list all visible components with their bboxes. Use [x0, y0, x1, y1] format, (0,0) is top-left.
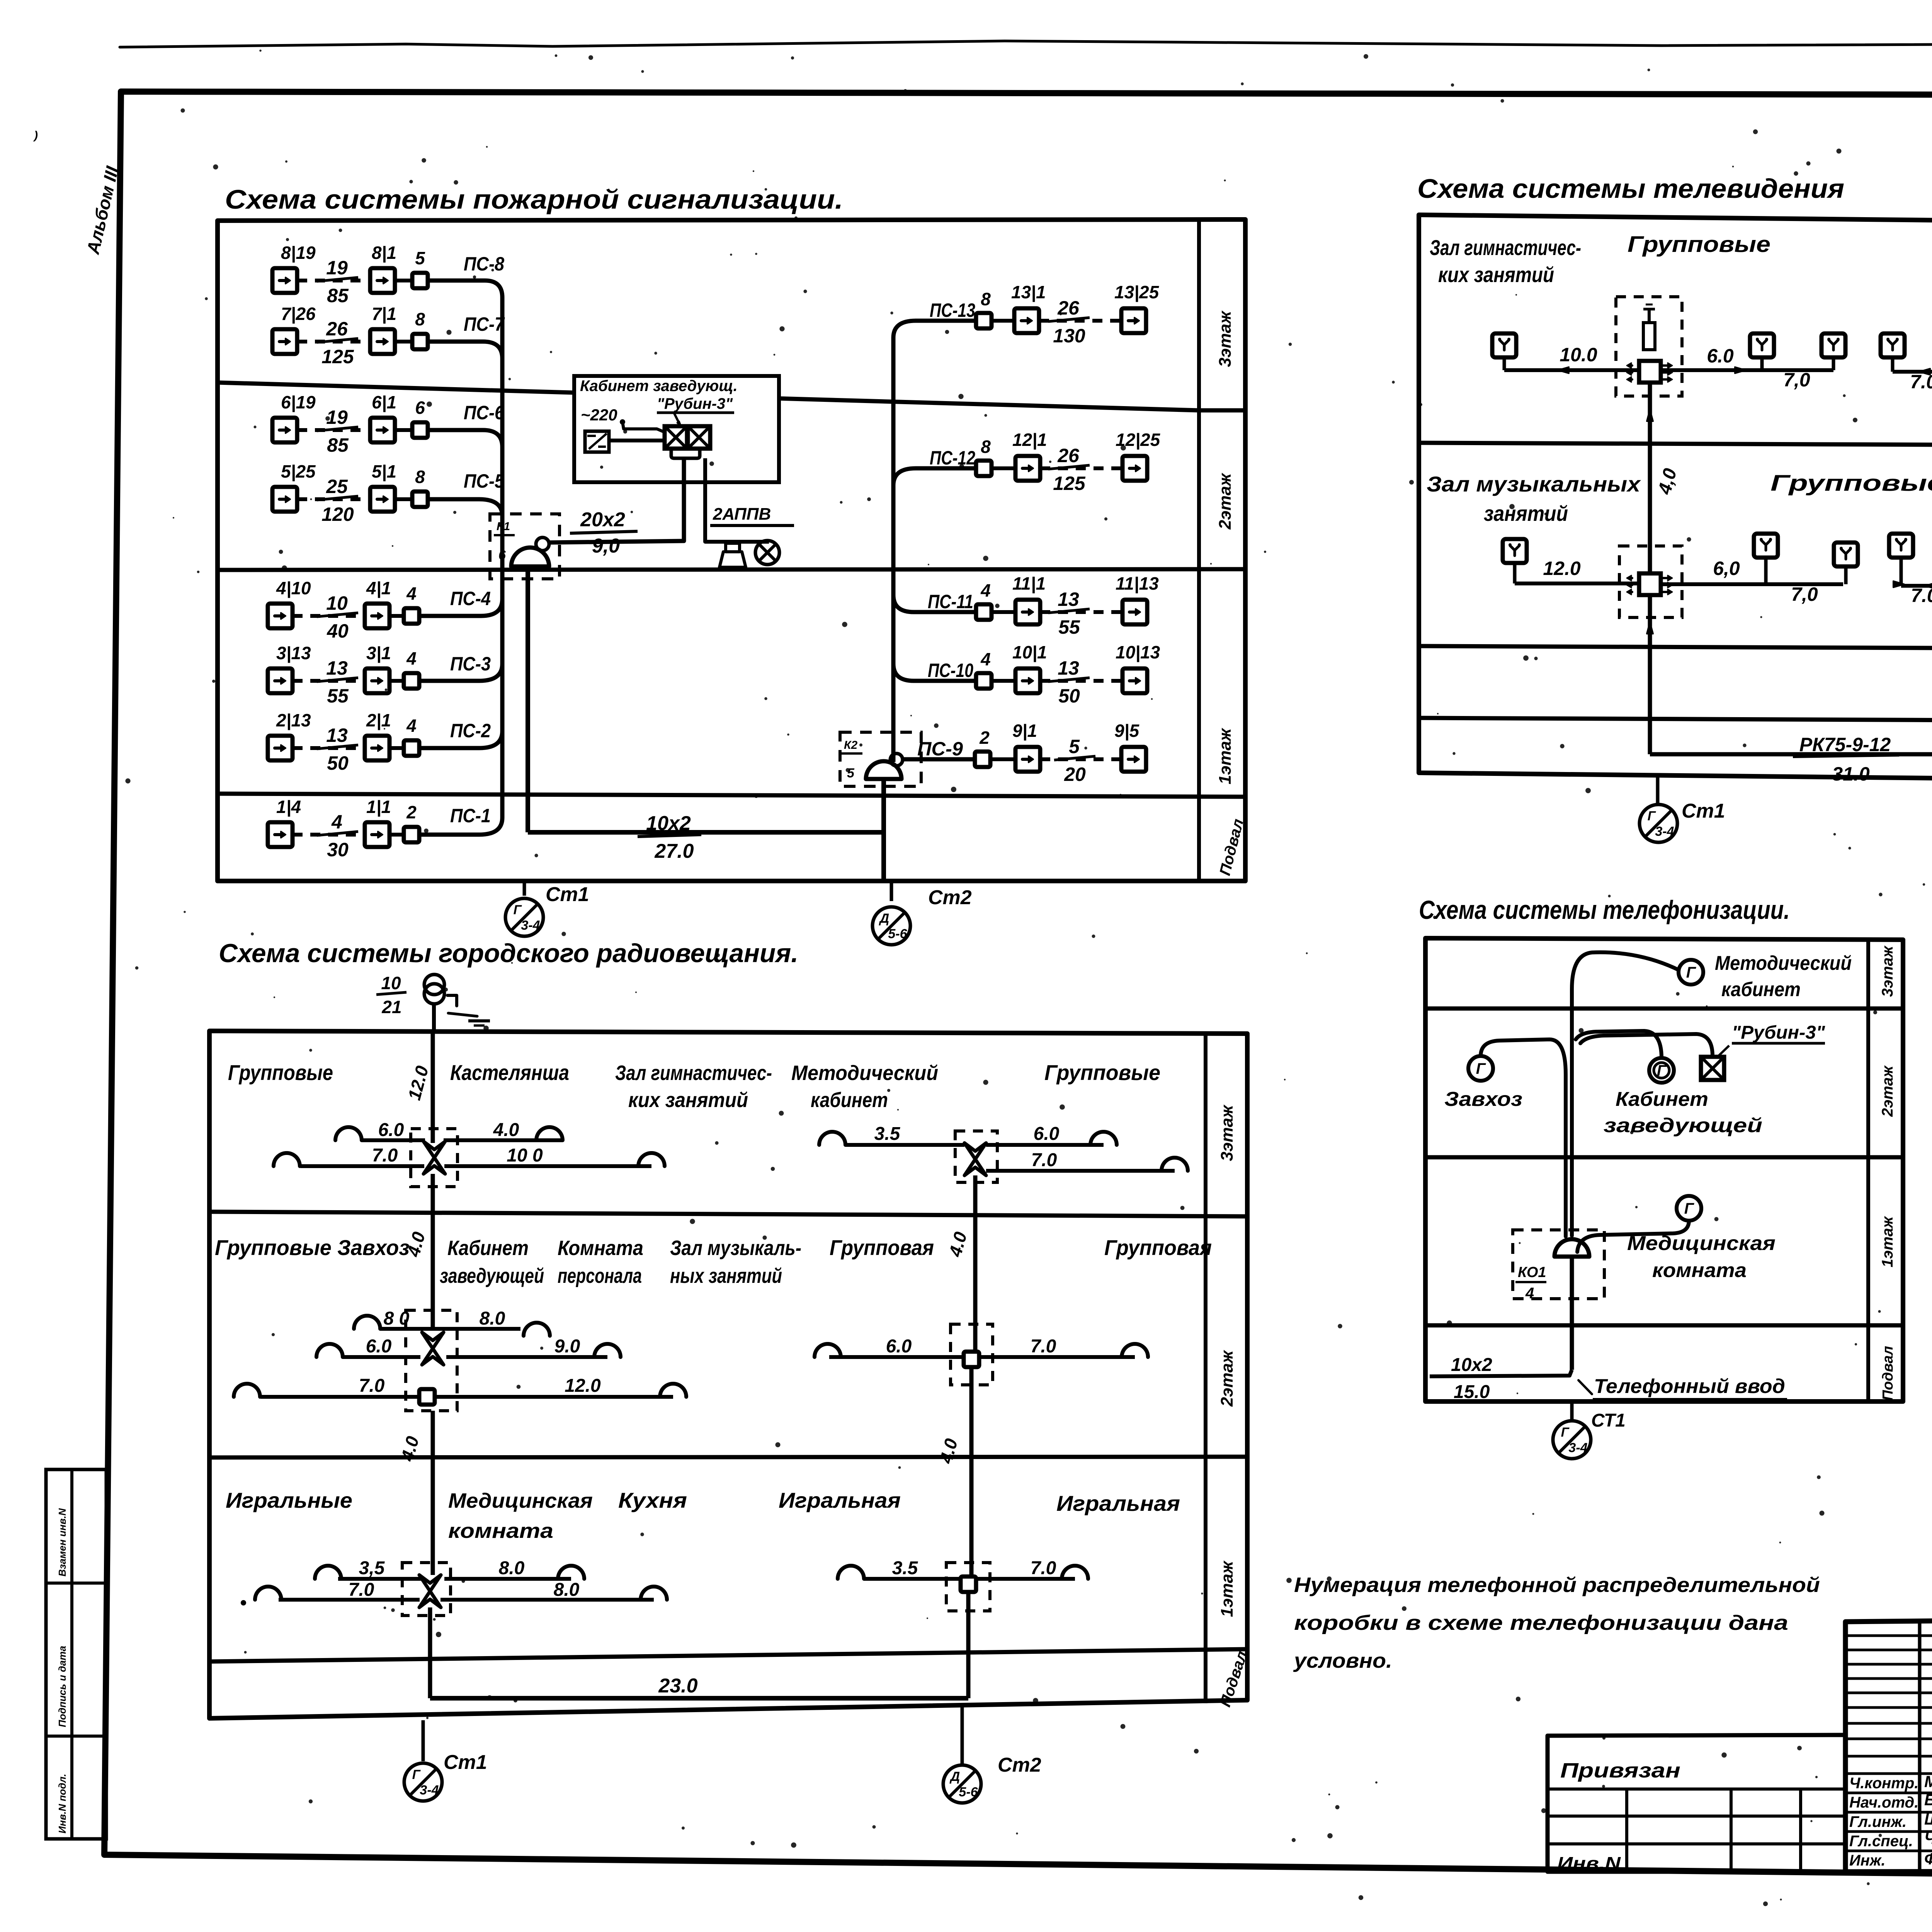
detector ПС-9 (9|1): [1015, 747, 1040, 772]
fire trunk K2 down to St2: [881, 779, 886, 881]
svg-text:ПС-8: ПС-8: [464, 253, 504, 275]
svg-text:Ст1: Ст1: [444, 1751, 487, 1774]
svg-text:комната: комната: [448, 1519, 553, 1543]
wire ПС-13 from riser: [916, 319, 976, 323]
dashed run with count 25/120: [297, 497, 370, 501]
svg-text:4|10: 4|10: [276, 578, 311, 598]
wire 3fl right group: [1893, 370, 1932, 374]
wire ПС-8 to riser: [428, 279, 485, 283]
svg-text:6|1: 6|1: [372, 392, 396, 412]
detector ПС-13 (13|1): [1014, 308, 1039, 333]
wire to box: [389, 746, 404, 750]
svg-text:Групповая: Групповая: [830, 1235, 934, 1260]
wire ПС-4 to riser: [419, 614, 481, 618]
radio 2fl mid right line: [446, 1355, 607, 1359]
svg-text:85: 85: [327, 434, 349, 456]
fire box outline: [218, 219, 1245, 881]
svg-text:Методический: Методический: [1715, 952, 1852, 975]
pull box: [404, 673, 419, 689]
tv outlet A4: [1881, 333, 1905, 357]
svg-text:9.0: 9.0: [554, 1336, 580, 1357]
svg-text:Ст1: Ст1: [1682, 800, 1725, 822]
svg-text:Белов: Белов: [1924, 1791, 1932, 1809]
wire 20x2 from bell to Rubin: [549, 483, 684, 543]
wire to Кабинет заведующей phone: [1576, 1031, 1662, 1058]
wire 220 to signal unit: [622, 422, 664, 432]
svg-text:40: 40: [327, 620, 349, 642]
svg-text:26: 26: [1057, 297, 1080, 319]
phone Медицинская комната: [1677, 1196, 1701, 1221]
St2 riser tick: [890, 881, 893, 901]
riser symbol Ст1 (radio): [404, 1763, 442, 1801]
svg-text:Кастелянша: Кастелянша: [450, 1060, 569, 1085]
fire left riser wire K1: [500, 298, 505, 818]
radio 3fl left lower line: [301, 1164, 424, 1168]
svg-text:10: 10: [381, 973, 401, 993]
dashed run: [1040, 757, 1121, 761]
radio St1 riser tick: [422, 1720, 425, 1761]
detector last ПС-5 (5|1): [370, 487, 395, 512]
radio 3fl right lower line: [444, 1164, 651, 1168]
dashed run with count 10/40: [293, 614, 365, 618]
privyazan box: [1548, 1735, 1845, 1872]
svg-text:9|5: 9|5: [1114, 721, 1139, 741]
detector last ПС-1 (1|1): [365, 822, 389, 847]
svg-text:3.5: 3.5: [892, 1558, 918, 1578]
title block outer frame: [1845, 1614, 1932, 1872]
radio 1fl right line2: [976, 1577, 1075, 1581]
svg-text:Взамен инв.N: Взамен инв.N: [56, 1508, 68, 1577]
speaker r10: [316, 1344, 343, 1357]
svg-text:Г: Г: [1476, 1060, 1486, 1077]
bell K2: [866, 761, 901, 779]
wire box to detector: [992, 319, 1014, 323]
speaker r14: [815, 1344, 841, 1357]
svg-text:~220: ~220: [581, 406, 617, 424]
dashed run with count 13/50: [293, 746, 365, 750]
St1 riser tick: [523, 881, 526, 896]
radio trunk 1 between 3 and 2: [431, 1174, 435, 1329]
svg-text:6.0: 6.0: [886, 1336, 912, 1357]
pull box: [412, 422, 428, 438]
svg-text:85: 85: [327, 285, 349, 306]
bell K1: [511, 548, 549, 566]
svg-text:30: 30: [327, 839, 349, 861]
svg-text:7.0: 7.0: [1911, 585, 1932, 606]
speaker r2: [274, 1153, 300, 1166]
detector first ПС-3 (3|13): [268, 668, 293, 693]
svg-text:ПС-12: ПС-12: [930, 447, 975, 469]
detector last ПС-4 (4|1): [365, 604, 389, 628]
tele floor line 3-2: [1425, 1007, 1903, 1011]
svg-text:6.0: 6.0: [366, 1336, 392, 1357]
svg-text:Инж.: Инж.: [1849, 1852, 1886, 1869]
radio stand stem: [432, 1004, 436, 1031]
dashed run with count 26/125: [297, 340, 370, 344]
svg-text:ных занятий: ных занятий: [670, 1264, 782, 1287]
speaker r7: [1162, 1158, 1188, 1171]
svg-text:2|13: 2|13: [276, 710, 311, 730]
wire bend ПС-5 into riser: [479, 499, 502, 516]
tv outlet B4: [1889, 534, 1913, 558]
wire box to detector: [992, 679, 1015, 683]
wire bend ПС-10 from riser: [893, 664, 914, 681]
bell KO1: [1554, 1239, 1589, 1257]
svg-text:26: 26: [326, 318, 348, 340]
detector last ПС-9 (9|5): [1121, 747, 1146, 772]
svg-text:1этаж: 1этаж: [1218, 1560, 1236, 1617]
svg-text:6.0: 6.0: [1707, 345, 1734, 367]
detector ПС-11 (11|1): [1015, 600, 1040, 624]
tv outlet A1: [1492, 333, 1516, 357]
svg-text:Г: Г: [412, 1767, 421, 1782]
dashed run: [1039, 319, 1121, 323]
wire 10x2 horizontal in basement: [528, 830, 884, 835]
wire to Рубин-3 (tele): [1580, 1034, 1713, 1056]
svg-text:4|1: 4|1: [366, 578, 391, 598]
radio 1fl right line1: [864, 1577, 961, 1581]
tv outlet B2: [1754, 534, 1778, 558]
radio trunk 1 basement: [428, 1607, 432, 1698]
wire unit to horn and lamp: [705, 458, 769, 542]
svg-text:Кабинет: Кабинет: [447, 1236, 529, 1260]
svg-text:Телефонный ввод: Телефонный ввод: [1594, 1375, 1785, 1398]
svg-text:6: 6: [415, 398, 425, 418]
svg-text:ПС-7: ПС-7: [464, 313, 505, 335]
arrow from Рубин-3 label to unit: [674, 413, 680, 425]
svg-text:13|25: 13|25: [1114, 282, 1160, 302]
svg-text:4: 4: [331, 811, 342, 833]
svg-text:Нач.отд.: Нач.отд.: [1849, 1794, 1918, 1811]
tele floor line 1-basement: [1425, 1323, 1903, 1328]
outlet A3 stem: [1832, 358, 1835, 370]
svg-text:Групповые: Групповые: [228, 1060, 333, 1085]
detector first ПС-1 (1|4): [268, 822, 293, 847]
pull box: [976, 673, 992, 689]
radio 1fl upper line: [338, 1577, 421, 1581]
svg-text:Игральная: Игральная: [1056, 1491, 1180, 1515]
svg-text:10х2: 10х2: [646, 812, 691, 835]
svg-text:125: 125: [1053, 473, 1086, 494]
riser symbol Ст2 (radio): [943, 1765, 981, 1803]
radio 3fl right upper line: [444, 1138, 563, 1142]
svg-text:4: 4: [406, 583, 417, 604]
wire bend ПС-7 into riser: [483, 342, 502, 359]
svg-text:ких занятий: ких занятий: [628, 1088, 748, 1112]
radio basement wire 23.0: [430, 1696, 968, 1701]
svg-text:3-4: 3-4: [1568, 1440, 1587, 1455]
tv outlet A2: [1750, 333, 1774, 357]
wire bend ПС-13 from riser: [893, 321, 916, 338]
svg-text:3-4: 3-4: [420, 1783, 439, 1798]
radio trunk 2 basement: [966, 1592, 971, 1698]
tv outlet B1: [1503, 539, 1527, 563]
svg-text:5: 5: [415, 248, 425, 268]
svg-text:19: 19: [326, 257, 348, 279]
svg-text:4.0: 4.0: [493, 1120, 519, 1140]
svg-text:13: 13: [326, 657, 348, 679]
tv splitter left 3fl: [1639, 361, 1661, 383]
pull box 2fl right: [964, 1352, 979, 1367]
svg-text:2этаж: 2этаж: [1218, 1350, 1236, 1407]
tv outlet B3: [1834, 543, 1858, 566]
svg-text:4: 4: [980, 580, 991, 600]
svg-text:4: 4: [980, 649, 991, 669]
detector last ПС-10 (10|13): [1122, 668, 1147, 693]
svg-text:50: 50: [327, 752, 349, 774]
wire 2fl left with 12.0: [1515, 582, 1639, 585]
svg-text:20х2: 20х2: [580, 509, 625, 531]
svg-text:заведующей: заведующей: [1604, 1114, 1762, 1137]
radio trunk 2 right upper: [973, 1175, 978, 1350]
wire to box: [395, 279, 412, 282]
signal unit Рубин-3 (two X boxes): [665, 426, 687, 449]
tv head dashed enclosure left 3fl: [1616, 297, 1682, 396]
svg-text:5|1: 5|1: [372, 461, 396, 481]
room box Кабинет заведующ: [574, 376, 779, 482]
svg-text:1этаж: 1этаж: [1879, 1216, 1896, 1267]
tele St1 tick: [1570, 1401, 1574, 1420]
svg-text:Групповые: Групповые: [1044, 1060, 1160, 1085]
radio 3fl right group line2: [986, 1143, 1104, 1147]
wire to box: [389, 614, 404, 618]
svg-text:Схема системы городского ра: Схема системы городского радиовещания.: [219, 939, 798, 968]
svg-text:3этаж: 3этаж: [1216, 310, 1235, 367]
radio floor line 1-basement: [209, 1649, 1247, 1662]
svg-text:Подпись и дата: Подпись и дата: [56, 1646, 68, 1727]
radio 2fl bottom right line: [435, 1395, 673, 1399]
svg-text:3|13: 3|13: [276, 643, 311, 663]
svg-text:К1: К1: [497, 520, 510, 533]
svg-text:ПС-13: ПС-13: [930, 299, 975, 321]
wire box to detector: [990, 757, 1015, 761]
pull box: [404, 608, 419, 624]
svg-text:120: 120: [321, 503, 354, 525]
lamp with cross: [755, 541, 779, 565]
svg-text:Зал музыкаль-: Зал музыкаль-: [670, 1236, 801, 1260]
svg-text:условно.: условно.: [1293, 1649, 1392, 1672]
svg-text:Фомина: Фомина: [1924, 1850, 1932, 1868]
svg-text:6,0: 6,0: [1713, 558, 1740, 579]
svg-text:4: 4: [406, 648, 417, 668]
pull box: [404, 740, 419, 756]
dashed run: [1040, 466, 1122, 470]
riser symbol Ст1 (tele): [1553, 1421, 1591, 1459]
svg-text:13: 13: [1058, 588, 1079, 610]
svg-text:Подвал: Подвал: [1880, 1346, 1896, 1401]
svg-text:Кухня: Кухня: [618, 1488, 687, 1512]
svg-text:Нумерация телефонной распредел: Нумерация телефонной распределительной: [1294, 1573, 1820, 1597]
wire ПС-1 to riser: [419, 833, 479, 837]
pull box: [975, 752, 990, 767]
wire box to detector: [992, 610, 1015, 614]
tv splitter left 2fl: [1639, 573, 1661, 595]
svg-text:занятий: занятий: [1484, 501, 1568, 526]
privyazan grid v-lines: [1625, 1789, 1628, 1872]
radio 2fl bottom line: [261, 1395, 418, 1399]
radio floor line 2-1: [209, 1457, 1247, 1458]
svg-text:27.0: 27.0: [654, 840, 694, 862]
svg-text:13: 13: [1058, 657, 1079, 679]
svg-text:50: 50: [1058, 685, 1080, 707]
wire ПС-7 to riser: [428, 340, 483, 344]
speaker r19: [641, 1587, 667, 1600]
svg-text:Ст2: Ст2: [998, 1754, 1041, 1776]
outlet A2 stem: [1760, 358, 1764, 370]
wire to Завхоз phone: [1481, 1039, 1566, 1236]
speaker r13: [660, 1384, 686, 1397]
svg-text:кабинет: кабинет: [811, 1088, 888, 1112]
ufk 3fl left: [423, 1141, 445, 1158]
detector first ПС-4 (4|10): [268, 604, 293, 628]
pull box: [976, 461, 992, 476]
svg-text:12.0: 12.0: [565, 1376, 601, 1396]
svg-text:4: 4: [406, 716, 417, 736]
svg-text:Г: Г: [514, 903, 522, 917]
wire to Медицинская phone: [1577, 1221, 1689, 1252]
radio 1fl lower line: [279, 1598, 420, 1602]
svg-text:7,0: 7,0: [1783, 369, 1810, 391]
svg-text:Инв.N: Инв.N: [1557, 1853, 1621, 1873]
svg-text:1этаж: 1этаж: [1216, 728, 1235, 784]
radio 1fl lower right line: [440, 1598, 654, 1602]
svg-text:Ст2: Ст2: [928, 886, 972, 909]
tv trunk left lower: [1648, 595, 1652, 754]
detector first ПС-7 (7|26): [272, 329, 297, 354]
horn Ревун: [726, 543, 740, 552]
detector first ПС-6 (6|19): [272, 418, 297, 442]
title block left columns: [1918, 1622, 1922, 1871]
svg-text:8: 8: [415, 309, 425, 329]
phone Методический кабинет: [1679, 960, 1703, 985]
wire box to detector: [992, 466, 1015, 470]
svg-text:Привязан: Привязан: [1560, 1759, 1680, 1782]
svg-text:Схема системы телевидения: Схема системы телевидения: [1417, 173, 1844, 204]
junction box K2 dashed enclosure: [840, 732, 921, 786]
svg-text:3,5: 3,5: [359, 1558, 385, 1578]
radio trunk 1 upper: [431, 1031, 435, 1143]
svg-text:ПС-3: ПС-3: [450, 653, 491, 675]
svg-text:55: 55: [1058, 616, 1080, 638]
wire 2fl right group: [1901, 584, 1932, 588]
junction box K1 dashed enclosure: [490, 514, 560, 579]
tv floor line 1-basement: [1419, 718, 1932, 722]
wire ПС-2 to riser: [419, 746, 479, 750]
svg-text:Зал музыкальных: Зал музыкальных: [1427, 472, 1641, 496]
svg-text:23.0: 23.0: [658, 1675, 697, 1697]
svg-text:1|1: 1|1: [366, 797, 391, 817]
svg-text:Чупарева: Чупарева: [1924, 1829, 1932, 1847]
svg-text:5-6: 5-6: [888, 927, 907, 941]
radio St2 riser tick: [961, 1703, 964, 1764]
svg-text:кабинет: кабинет: [1721, 978, 1801, 1001]
svg-text:15.0: 15.0: [1454, 1382, 1490, 1402]
wire power to signal unit: [609, 439, 664, 442]
dashed run with count 13/55: [293, 679, 365, 683]
detector last ПС-13 (13|25): [1121, 308, 1146, 333]
wire to box: [395, 428, 412, 432]
svg-text:комната: комната: [1652, 1259, 1747, 1282]
svg-text:персонала: персонала: [558, 1264, 642, 1287]
svg-text:Д: Д: [879, 911, 889, 926]
radio 3fl right group line1: [845, 1143, 964, 1147]
tv trunk left 4.0: [1648, 383, 1652, 572]
svg-text:Г: Г: [1684, 1200, 1695, 1217]
svg-text:3|1: 3|1: [366, 643, 391, 663]
svg-text:55: 55: [327, 685, 349, 707]
svg-text:Зал гимнастичес-: Зал гимнастичес-: [615, 1061, 772, 1085]
dashed enclosure 2fl left: [406, 1310, 457, 1411]
dashed enclosure left 2fl: [1619, 546, 1682, 617]
wire bend ПС-1 into riser: [479, 818, 502, 835]
svg-text:10х2: 10х2: [1451, 1355, 1492, 1375]
svg-text:8|1: 8|1: [372, 243, 396, 263]
dashed run: [1040, 679, 1122, 683]
riser symbol Ст1 (tv): [1639, 804, 1677, 842]
svg-text:2: 2: [406, 802, 417, 822]
fire floor line 2-1: [218, 569, 1245, 570]
svg-text:8.0: 8.0: [554, 1580, 580, 1600]
svg-text:ПС-4: ПС-4: [450, 588, 491, 609]
svg-text:8: 8: [415, 467, 425, 487]
bell K2 knob: [890, 753, 903, 766]
svg-text:25: 25: [326, 476, 348, 497]
speaker r18: [255, 1587, 281, 1600]
svg-text:13|1: 13|1: [1011, 282, 1046, 302]
pull box: [404, 827, 419, 842]
svg-text:Г: Г: [1686, 964, 1697, 981]
wire bend ПС-12 from riser: [893, 468, 916, 485]
svg-text:10 0: 10 0: [507, 1145, 543, 1166]
svg-text:Ч.контр.: Ч.контр.: [1849, 1775, 1918, 1792]
svg-text:Г: Г: [1657, 1062, 1667, 1079]
svg-text:ПС-1: ПС-1: [450, 805, 491, 827]
wire unit to 20x2 bend: [682, 458, 686, 540]
wire ПС-6 to riser: [428, 428, 483, 432]
fire box floors label column line: [1197, 219, 1201, 881]
svg-text:7.0: 7.0: [1031, 1150, 1057, 1170]
load resistor above splitter: [1643, 323, 1655, 350]
tv floor line 3-2: [1419, 443, 1932, 446]
radio floor line 3-2: [209, 1212, 1247, 1216]
svg-text:СТ1: СТ1: [1591, 1410, 1626, 1431]
svg-text:"Рубин-3": "Рубин-3": [657, 395, 733, 412]
svg-text:7,0: 7,0: [1791, 583, 1818, 605]
svg-text:8|19: 8|19: [281, 243, 316, 263]
svg-text:К2: К2: [844, 739, 857, 752]
wire bend ПС-6 into riser: [483, 430, 502, 447]
svg-text:Групповые Завхоз: Групповые Завхоз: [215, 1235, 410, 1260]
wire ПС-11 from riser: [914, 610, 976, 614]
fire floor line 3-2: [218, 383, 1199, 410]
speaker r3: [536, 1127, 563, 1140]
svg-text:12|1: 12|1: [1012, 430, 1047, 450]
svg-text:Завхоз: Завхоз: [1444, 1088, 1522, 1111]
wire 2fl mid: [1661, 582, 1843, 586]
svg-text:ПС-6: ПС-6: [464, 402, 505, 423]
svg-text:12.0: 12.0: [1543, 558, 1581, 579]
svg-text:7.0: 7.0: [1031, 1558, 1056, 1578]
title block thin rows: [1845, 1634, 1932, 1637]
tv basement wire РК75-9-12: [1650, 752, 1932, 757]
svg-text:7|1: 7|1: [372, 304, 396, 324]
dashed run with count 4/30: [293, 833, 365, 837]
radio box outline: [209, 1031, 1247, 1718]
radio stand symbol: [424, 975, 444, 995]
svg-text:8: 8: [981, 437, 991, 457]
svg-text:6.0: 6.0: [1034, 1124, 1060, 1144]
wire to Методический phone: [1572, 952, 1679, 1236]
